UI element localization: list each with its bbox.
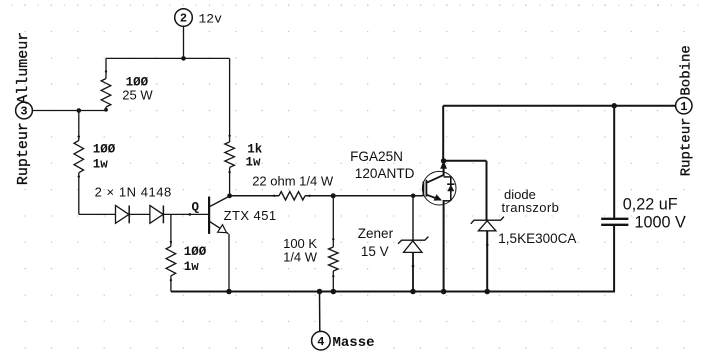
svg-text:1w: 1w bbox=[184, 260, 200, 274]
label R4 value 1k bbox=[247, 143, 263, 157]
resistor R6 100 K 1/4 W bbox=[329, 196, 339, 295]
label R1 value 100 bbox=[126, 76, 149, 90]
svg-text:22 ohm 1/4 W: 22 ohm 1/4 W bbox=[252, 174, 334, 189]
label R4 rating 1w bbox=[246, 155, 262, 169]
svg-text:1w: 1w bbox=[246, 155, 262, 169]
node IGBT collector junction bbox=[441, 158, 446, 163]
node 1 (Rupteur Bobine terminal) bbox=[676, 98, 692, 114]
label Q (base node) bbox=[192, 201, 200, 215]
zener diode Z1 15V bbox=[398, 196, 428, 295]
wire IGBT collector to output rail bbox=[442, 106, 444, 161]
label 22 ohm 1/4 W bbox=[252, 174, 334, 189]
label Rupteur Allumeur (vertical) bbox=[15, 32, 32, 185]
wire ground rail to node 4 bbox=[319, 292, 321, 332]
svg-text:4: 4 bbox=[317, 335, 324, 349]
wire node 3 to node A bbox=[32, 108, 108, 113]
svg-text:1ØØ: 1ØØ bbox=[93, 143, 116, 157]
resistor R4 1k 1w bbox=[225, 58, 235, 195]
svg-text:100 K: 100 K bbox=[283, 236, 317, 251]
resistor R1 100 25W bbox=[101, 58, 111, 110]
label Rupteur Bobine (vertical) bbox=[679, 45, 695, 176]
svg-text:Zener: Zener bbox=[358, 226, 394, 241]
node 2 (12v supply terminal) bbox=[175, 9, 222, 27]
svg-text:Masse: Masse bbox=[333, 335, 375, 351]
svg-text:15 V: 15 V bbox=[361, 244, 389, 259]
transzorb diode 1,5KE300CA bbox=[471, 217, 504, 295]
svg-text:1ØØ: 1ØØ bbox=[184, 245, 207, 259]
label 0,22 uF 1000 V bbox=[623, 196, 686, 232]
label ZTX 451 bbox=[224, 208, 277, 223]
svg-text:1/4 W: 1/4 W bbox=[283, 250, 318, 265]
label R2 rating 1w bbox=[93, 158, 109, 172]
svg-text:ZTX 451: ZTX 451 bbox=[224, 208, 277, 223]
transistor Q1 ZTX 451 bbox=[209, 196, 229, 234]
svg-text:0,22 uF: 0,22 uF bbox=[623, 196, 678, 214]
label R2 value 100 bbox=[93, 143, 116, 157]
svg-text:Q: Q bbox=[192, 201, 200, 215]
wire ground bottom rail bbox=[171, 289, 615, 295]
svg-text:2 × 1N 4148: 2 × 1N 4148 bbox=[95, 184, 172, 199]
svg-text:1,5KE300CA: 1,5KE300CA bbox=[498, 231, 576, 246]
svg-text:Bobine: Bobine bbox=[679, 45, 695, 95]
node gate net junction bbox=[331, 193, 336, 198]
node collector junction bbox=[227, 193, 232, 198]
label Masse bbox=[333, 335, 375, 351]
resistor R2 100 1w bbox=[74, 111, 84, 215]
wire +12V top rail bbox=[106, 57, 230, 59]
resistor R3 100 1w bbox=[166, 214, 176, 291]
node 3 (Rupteur Allumeur terminal) bbox=[16, 102, 33, 119]
svg-text:Allumeur: Allumeur bbox=[15, 32, 32, 104]
wire from node 2 to +12V rail bbox=[181, 26, 186, 60]
label 2 x 1N 4148 bbox=[95, 184, 172, 199]
svg-text:1w: 1w bbox=[93, 158, 109, 172]
IGBT U1 FGA25N120ANTD bbox=[422, 160, 456, 294]
label R1 rating 25 W bbox=[122, 87, 153, 102]
label FGA25N 120ANTD bbox=[350, 149, 415, 181]
label 1,5KE300CA bbox=[498, 231, 576, 246]
diode D1 1N4148 bbox=[116, 206, 130, 224]
node 4 (Masse ground terminal) bbox=[312, 331, 331, 350]
svg-text:FGA25N: FGA25N bbox=[350, 149, 403, 164]
wire collector node to transzorb bbox=[444, 161, 487, 220]
resistor R5 22 ohm 1/4 W bbox=[230, 192, 334, 200]
svg-text:120ANTD: 120ANTD bbox=[355, 166, 415, 181]
label Zener 15 V bbox=[358, 226, 394, 259]
label R3 value 100 bbox=[184, 245, 207, 259]
svg-text:2: 2 bbox=[180, 12, 187, 26]
wire Q1 emitter to ground rail bbox=[226, 234, 232, 294]
svg-text:12v: 12v bbox=[199, 11, 223, 26]
label 100 K 1/4 W bbox=[283, 236, 318, 265]
svg-text:Rupteur: Rupteur bbox=[15, 122, 32, 185]
svg-text:3: 3 bbox=[20, 105, 27, 119]
svg-text:1000 V: 1000 V bbox=[635, 214, 687, 232]
label diode transzorb bbox=[502, 187, 560, 215]
svg-text:Rupteur: Rupteur bbox=[679, 117, 695, 176]
wire output top rail bbox=[443, 103, 676, 108]
wire gate net to IGBT bbox=[333, 194, 423, 199]
wire diode row bbox=[79, 213, 209, 216]
svg-text:25 W: 25 W bbox=[122, 87, 153, 102]
diode D2 1N4148 bbox=[150, 206, 164, 224]
label R3 rating 1w bbox=[184, 260, 200, 274]
svg-text:1: 1 bbox=[680, 100, 687, 114]
capacitor C1 0,22uF 1000V bbox=[601, 106, 628, 292]
svg-text:transzorb: transzorb bbox=[502, 200, 560, 215]
